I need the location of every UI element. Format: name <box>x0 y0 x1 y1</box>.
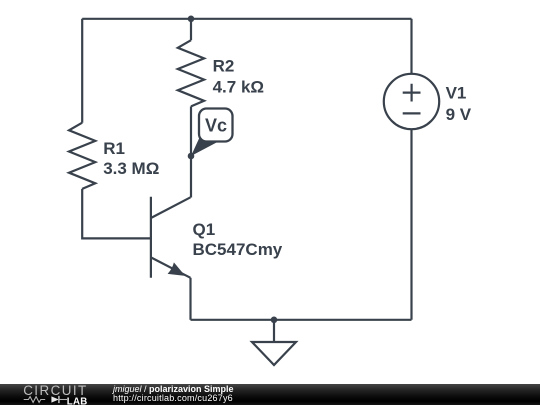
svg-text:R1: R1 <box>103 139 125 158</box>
footer credit text <box>112 383 114 385</box>
wire V1 bottom lead <box>410 129 412 320</box>
wire emitter down <box>189 278 191 320</box>
node junction top <box>188 15 195 22</box>
svg-text:V1: V1 <box>446 84 467 103</box>
wire collector vertical <box>190 156 192 198</box>
svg-text:LAB: LAB <box>67 396 88 405</box>
svg-text:9 V: 9 V <box>446 105 472 124</box>
node Vc dot <box>188 153 195 160</box>
node junction bottom <box>271 317 278 324</box>
svg-text:BC547Cmy: BC547Cmy <box>193 240 283 259</box>
voltage source V1 <box>384 74 439 129</box>
wire top rail <box>82 18 411 20</box>
ground <box>252 320 296 365</box>
svg-text:Vc: Vc <box>205 115 227 135</box>
wire R2 top lead <box>190 19 192 40</box>
CircuitLab logo <box>0 384 110 405</box>
wire V1 top lead <box>410 19 412 74</box>
svg-text:Q1: Q1 <box>193 220 216 239</box>
svg-text:4.7 kΩ: 4.7 kΩ <box>213 77 264 96</box>
footer bar <box>0 384 540 405</box>
wire R1 bottom lead to base <box>82 189 151 239</box>
transistor Q1 <box>151 197 191 278</box>
net flag Vc <box>191 109 233 157</box>
wire left vertical (R1 top lead) <box>81 19 83 123</box>
svg-text:R2: R2 <box>213 57 235 76</box>
resistor R1 <box>69 123 95 189</box>
wire R2 bottom lead to node Vc <box>190 106 192 156</box>
wire bottom rail <box>191 319 412 321</box>
svg-text:3.3 MΩ: 3.3 MΩ <box>103 159 159 178</box>
resistor R2 <box>178 40 204 106</box>
